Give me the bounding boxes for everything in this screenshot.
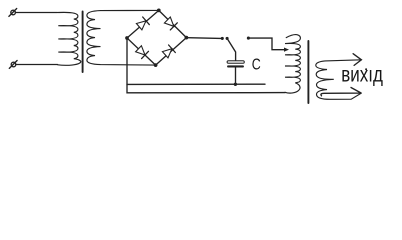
svg-text:C: C (252, 57, 261, 74)
svg-text:вихıд: вихıд (341, 64, 383, 87)
